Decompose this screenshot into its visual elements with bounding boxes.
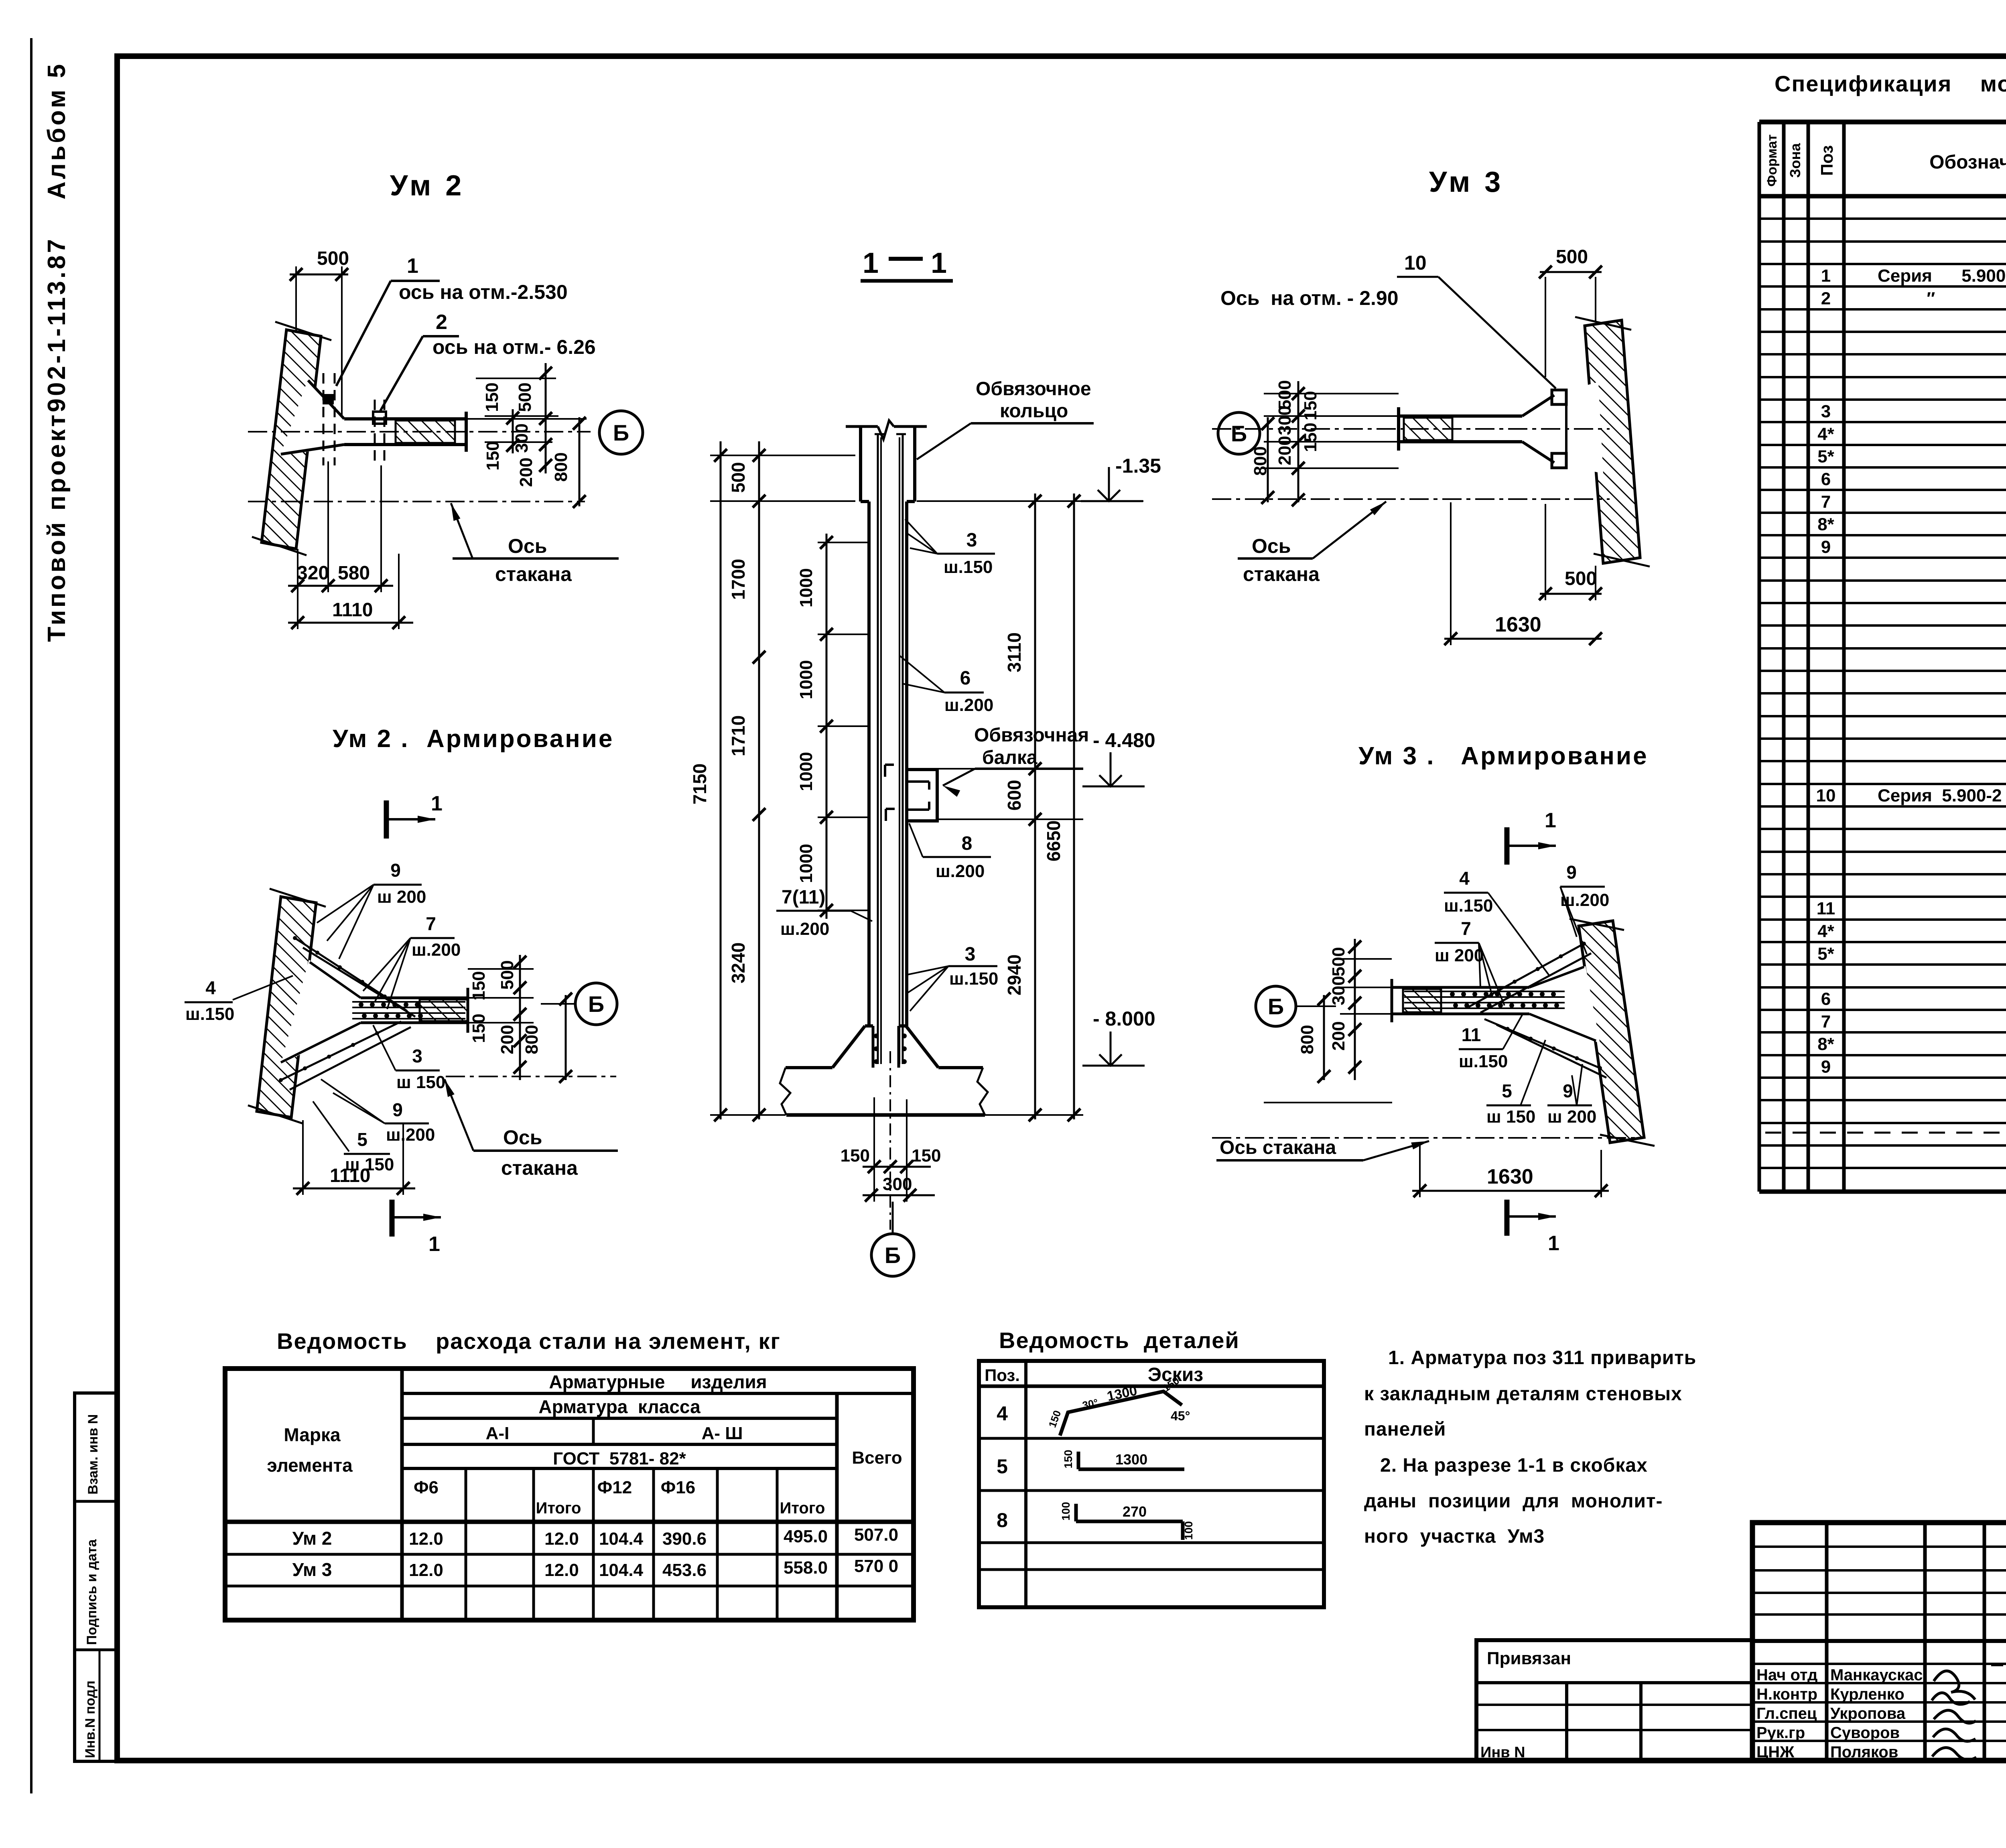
svg-text:″: ″ xyxy=(1878,288,1935,308)
svg-text:12.0: 12.0 xyxy=(544,1560,579,1580)
svg-text:Ф6: Ф6 xyxy=(414,1478,439,1497)
svg-text:Б: Б xyxy=(613,420,629,445)
svg-text:Инв.N подл: Инв.N подл xyxy=(83,1681,98,1758)
svg-text:9: 9 xyxy=(1821,537,1831,557)
svg-text:Инв N: Инв N xyxy=(1480,1744,1525,1761)
svg-text:390.6: 390.6 xyxy=(662,1529,707,1549)
svg-text:6: 6 xyxy=(1821,989,1831,1009)
svg-text:Ось: Ось xyxy=(503,1126,542,1149)
svg-text:1630: 1630 xyxy=(1487,1165,1533,1188)
svg-text:150: 150 xyxy=(469,971,489,1000)
svg-text:45°: 45° xyxy=(1171,1409,1190,1423)
svg-text:1: 1 xyxy=(863,247,879,279)
svg-text:Формат: Формат xyxy=(1764,134,1780,187)
svg-text:стакана: стакана xyxy=(1243,563,1320,585)
svg-text:Ум 3 . Армирование: Ум 3 . Армирование xyxy=(1358,742,1649,770)
svg-text:стакана: стакана xyxy=(495,563,572,585)
svg-text:Курленко: Курленко xyxy=(1830,1686,1904,1703)
svg-text:ш 150: ш 150 xyxy=(1486,1107,1535,1127)
svg-text:1000: 1000 xyxy=(796,844,816,883)
svg-text:Обвязочное: Обвязочное xyxy=(976,378,1091,400)
svg-text:150: 150 xyxy=(1301,422,1320,452)
svg-text:1: 1 xyxy=(407,254,418,278)
svg-text:558.0: 558.0 xyxy=(784,1558,828,1578)
svg-text:2940: 2940 xyxy=(1004,954,1025,995)
svg-text:Ум 2 . Армирование: Ум 2 . Армирование xyxy=(333,725,614,753)
svg-text:5*: 5* xyxy=(1817,944,1834,964)
svg-text:12.0: 12.0 xyxy=(409,1560,443,1580)
svg-text:Итого: Итого xyxy=(536,1499,581,1517)
svg-text:Поз.: Поз. xyxy=(985,1366,1020,1385)
svg-text:10: 10 xyxy=(1404,252,1427,274)
svg-text:3: 3 xyxy=(965,944,976,965)
svg-text:7150: 7150 xyxy=(689,764,710,804)
svg-text:9: 9 xyxy=(1821,1057,1831,1077)
svg-text:ного участка Ум3: ного участка Ум3 xyxy=(1364,1526,1545,1547)
svg-text:Ось: Ось xyxy=(508,535,547,557)
svg-text:А- Ш: А- Ш xyxy=(702,1424,743,1443)
svg-text:1110: 1110 xyxy=(332,599,373,621)
svg-text:ш.150: ш.150 xyxy=(949,969,998,989)
svg-text:Арматура класса: Арматура класса xyxy=(538,1396,700,1417)
svg-text:Всего: Всего xyxy=(852,1448,902,1468)
svg-text:500: 500 xyxy=(1275,380,1295,409)
svg-text:Ф12: Ф12 xyxy=(597,1478,632,1497)
svg-text:Зона: Зона xyxy=(1787,143,1803,178)
svg-text:9: 9 xyxy=(1563,1080,1573,1101)
svg-text:2: 2 xyxy=(436,311,447,334)
svg-text:9: 9 xyxy=(390,860,401,881)
svg-text:1110: 1110 xyxy=(330,1165,370,1186)
svg-text:Обвязочная: Обвязочная xyxy=(974,725,1089,746)
svg-text:1: 1 xyxy=(428,1233,440,1256)
svg-text:200: 200 xyxy=(1329,1021,1348,1050)
svg-text:Ум 2: Ум 2 xyxy=(292,1528,332,1549)
svg-text:1000: 1000 xyxy=(796,568,816,607)
svg-text:-1.35: -1.35 xyxy=(1115,455,1161,477)
svg-text:ш.150: ш.150 xyxy=(185,1004,234,1024)
svg-text:3: 3 xyxy=(412,1046,422,1066)
svg-text:4*: 4* xyxy=(1817,922,1834,941)
svg-text:200: 200 xyxy=(1275,436,1295,465)
svg-text:панелей: панелей xyxy=(1364,1419,1446,1440)
svg-text:Обозначение: Обозначение xyxy=(1929,152,2006,173)
svg-text:500: 500 xyxy=(515,382,535,412)
svg-text:А-I: А-I xyxy=(486,1424,510,1443)
svg-text:Ведомость деталей: Ведомость деталей xyxy=(999,1328,1240,1353)
svg-text:1: 1 xyxy=(1548,1232,1559,1255)
svg-text:500: 500 xyxy=(1556,246,1588,268)
svg-text:ш.200: ш.200 xyxy=(412,940,461,960)
svg-text:100: 100 xyxy=(1060,1502,1072,1521)
svg-text:7: 7 xyxy=(426,913,436,934)
svg-text:507.0: 507.0 xyxy=(854,1525,898,1545)
svg-text:ось на отм.-2.530: ось на отм.-2.530 xyxy=(399,281,568,303)
svg-text:8*: 8* xyxy=(1817,515,1834,534)
svg-text:9: 9 xyxy=(392,1099,403,1120)
svg-text:ш.150: ш.150 xyxy=(1444,896,1493,916)
svg-text:150: 150 xyxy=(1062,1450,1074,1468)
svg-text:1630: 1630 xyxy=(1495,613,1541,636)
svg-text:2. На разрезе 1-1 в скобках: 2. На разрезе 1-1 в скобках xyxy=(1380,1455,1648,1476)
svg-text:ш.200: ш.200 xyxy=(780,919,829,939)
svg-text:1: 1 xyxy=(431,792,443,815)
svg-text:ш 150: ш 150 xyxy=(396,1072,445,1092)
svg-text:100: 100 xyxy=(1182,1521,1195,1540)
svg-text:Ось: Ось xyxy=(1252,535,1291,557)
svg-text:Н.контр: Н.контр xyxy=(1756,1686,1817,1703)
svg-text:Ось на отм. - 2.90: Ось на отм. - 2.90 xyxy=(1220,287,1399,309)
svg-text:кольцо: кольцо xyxy=(1000,400,1068,422)
svg-text:500: 500 xyxy=(728,462,749,493)
svg-text:Ось стакана: Ось стакана xyxy=(1220,1137,1336,1158)
svg-text:9: 9 xyxy=(1566,862,1577,883)
svg-text:150: 150 xyxy=(841,1146,870,1166)
svg-text:800: 800 xyxy=(1251,446,1270,475)
svg-text:- 4.480: - 4.480 xyxy=(1093,729,1155,751)
svg-text:ш.150: ш.150 xyxy=(944,557,993,577)
svg-text:1000: 1000 xyxy=(796,752,816,791)
svg-text:Серия 5.900-2: Серия 5.900-2 xyxy=(1878,266,2006,286)
svg-text:150: 150 xyxy=(482,382,502,412)
svg-text:4: 4 xyxy=(205,977,216,998)
svg-text:даны позиции для монолит-: даны позиции для монолит- xyxy=(1364,1491,1663,1512)
svg-text:1700: 1700 xyxy=(728,559,749,600)
svg-text:104.4: 104.4 xyxy=(599,1529,644,1549)
svg-text:ГОСТ 5781- 82*: ГОСТ 5781- 82* xyxy=(553,1449,686,1468)
svg-text:1. Арматура поз 311 приварить: 1. Арматура поз 311 приварить xyxy=(1388,1347,1696,1369)
svg-text:Нач отд: Нач отд xyxy=(1756,1666,1817,1684)
svg-text:4*: 4* xyxy=(1817,424,1834,444)
svg-text:800: 800 xyxy=(551,452,571,481)
svg-text:Итого: Итого xyxy=(780,1499,825,1517)
svg-text:Привязан: Привязан xyxy=(1487,1649,1571,1668)
svg-text:7(11): 7(11) xyxy=(782,887,825,908)
svg-text:3: 3 xyxy=(966,530,977,551)
svg-text:4: 4 xyxy=(997,1402,1008,1425)
svg-text:ш 200: ш 200 xyxy=(377,887,426,907)
svg-text:11: 11 xyxy=(1462,1024,1481,1045)
svg-text:1: 1 xyxy=(931,247,947,279)
svg-text:6650: 6650 xyxy=(1043,820,1064,861)
svg-text:к закладным деталям стеновых: к закладным деталям стеновых xyxy=(1364,1383,1682,1405)
svg-text:6: 6 xyxy=(1821,469,1831,489)
svg-text:500: 500 xyxy=(1565,568,1597,589)
svg-text:Б: Б xyxy=(588,991,604,1017)
svg-text:ш.200: ш.200 xyxy=(386,1125,435,1145)
svg-text:Ум 2: Ум 2 xyxy=(390,170,465,202)
svg-text:150: 150 xyxy=(483,441,503,470)
svg-text:8: 8 xyxy=(962,833,973,854)
svg-text:12.0: 12.0 xyxy=(544,1529,579,1549)
svg-text:ш 200: ш 200 xyxy=(1435,946,1484,965)
svg-text:7: 7 xyxy=(1461,918,1471,939)
svg-text:495.0: 495.0 xyxy=(784,1527,828,1546)
svg-text:Гл.спец: Гл.спец xyxy=(1756,1705,1817,1722)
svg-text:150: 150 xyxy=(469,1013,489,1043)
svg-text:300: 300 xyxy=(1329,976,1348,1005)
svg-text:300: 300 xyxy=(883,1174,912,1194)
svg-text:балка: балка xyxy=(982,747,1038,768)
svg-text:11: 11 xyxy=(1817,899,1835,918)
svg-text:Типовой проект902-1-113.87: Типовой проект902-1-113.87 Альбом 5 xyxy=(43,62,71,642)
svg-text:Серия 5.900-2: Серия 5.900-2 xyxy=(1878,786,2002,806)
svg-text:ЦНЖ: ЦНЖ xyxy=(1756,1743,1795,1761)
svg-text:1300: 1300 xyxy=(1115,1451,1147,1468)
svg-text:2: 2 xyxy=(1821,288,1831,308)
svg-text:стакана: стакана xyxy=(501,1157,578,1179)
svg-text:6: 6 xyxy=(960,668,971,689)
svg-text:7: 7 xyxy=(1821,1012,1831,1032)
svg-text:5: 5 xyxy=(357,1129,367,1150)
svg-text:Б: Б xyxy=(1268,994,1284,1019)
svg-text:8*: 8* xyxy=(1817,1034,1834,1054)
svg-text:300: 300 xyxy=(1275,406,1295,435)
svg-text:Рук.гр: Рук.гр xyxy=(1756,1724,1805,1742)
svg-text:300: 300 xyxy=(512,423,532,453)
svg-text:ш.200: ш.200 xyxy=(944,695,993,715)
svg-text:- 8.000: - 8.000 xyxy=(1093,1007,1155,1030)
svg-text:200: 200 xyxy=(497,1025,517,1054)
svg-text:10: 10 xyxy=(1816,786,1836,806)
svg-text:800: 800 xyxy=(522,1025,542,1054)
svg-text:8: 8 xyxy=(997,1509,1008,1531)
svg-text:ось на отм.- 6.26: ось на отм.- 6.26 xyxy=(432,336,596,358)
svg-text:500: 500 xyxy=(1329,947,1348,976)
svg-text:500: 500 xyxy=(497,960,517,989)
svg-text:200: 200 xyxy=(516,457,536,487)
svg-text:Марка: Марка xyxy=(284,1424,341,1445)
svg-text:570 0: 570 0 xyxy=(854,1556,898,1576)
svg-text:580: 580 xyxy=(338,563,370,584)
svg-text:Укропова: Укропова xyxy=(1830,1705,1906,1722)
svg-text:Суворов: Суворов xyxy=(1830,1724,1900,1742)
svg-text:12.0: 12.0 xyxy=(409,1529,443,1549)
svg-text:1000: 1000 xyxy=(796,660,816,699)
svg-text:320: 320 xyxy=(297,563,329,584)
svg-text:Манкаускас: Манкаускас xyxy=(1830,1666,1923,1684)
svg-text:800: 800 xyxy=(1297,1025,1317,1054)
svg-text:ш.200: ш.200 xyxy=(936,861,985,881)
svg-text:Б: Б xyxy=(1231,421,1247,446)
svg-text:5: 5 xyxy=(1502,1080,1512,1101)
svg-text:Ведомость расхода стали на: Ведомость расхода стали на элемент, кг xyxy=(277,1328,781,1354)
svg-text:Спецификация монолитных у: Спецификация монолитных участков Ум2,Ум3 xyxy=(1775,71,2006,96)
svg-text:600: 600 xyxy=(1004,780,1025,811)
svg-text:5*: 5* xyxy=(1817,447,1834,467)
svg-text:500: 500 xyxy=(317,248,349,269)
svg-text:150: 150 xyxy=(912,1146,941,1166)
svg-text:453.6: 453.6 xyxy=(662,1560,707,1580)
svg-text:7: 7 xyxy=(1821,492,1831,512)
svg-text:5: 5 xyxy=(997,1455,1008,1478)
svg-text:Поз: Поз xyxy=(1817,145,1836,176)
svg-text:ш.150: ш.150 xyxy=(1459,1052,1508,1071)
svg-text:Ум 3: Ум 3 xyxy=(292,1559,332,1580)
svg-text:Подпись и дата: Подпись и дата xyxy=(84,1539,99,1645)
svg-text:104.4: 104.4 xyxy=(599,1560,644,1580)
svg-text:270: 270 xyxy=(1123,1503,1147,1520)
svg-text:3: 3 xyxy=(1821,402,1831,421)
svg-text:Взам. инв N: Взам. инв N xyxy=(85,1414,101,1495)
svg-text:1: 1 xyxy=(1545,809,1556,832)
svg-text:Поляков: Поляков xyxy=(1830,1743,1898,1761)
svg-text:4: 4 xyxy=(1459,868,1470,889)
svg-text:Ум 3: Ум 3 xyxy=(1429,166,1504,198)
svg-text:Б: Б xyxy=(885,1243,901,1268)
svg-text:Арматурные изделия: Арматурные изделия xyxy=(549,1371,767,1392)
svg-text:элемента: элемента xyxy=(267,1455,353,1476)
svg-text:3110: 3110 xyxy=(1004,632,1025,672)
svg-text:3240: 3240 xyxy=(728,942,749,983)
svg-text:1710: 1710 xyxy=(728,715,749,756)
svg-text:ш 200: ш 200 xyxy=(1547,1107,1596,1127)
svg-text:1: 1 xyxy=(1821,266,1831,286)
svg-text:Ф16: Ф16 xyxy=(661,1478,696,1497)
